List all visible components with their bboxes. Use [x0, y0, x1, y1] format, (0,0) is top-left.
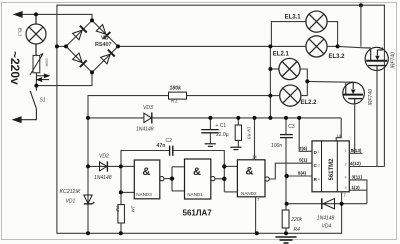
svg-text:VD: VD [101, 36, 109, 42]
svg-text:R1: R1 [171, 99, 178, 105]
svg-text:3: 3 [318, 163, 320, 167]
svg-text:NAND1: NAND1 [187, 192, 203, 197]
svg-text:14: 14 [336, 134, 341, 139]
svg-text:47n: 47n [157, 143, 166, 149]
wire vcc rail [88, 118, 341, 141]
svg-text:1N4148: 1N4148 [136, 126, 154, 132]
lamp EL2.2 [280, 85, 301, 106]
wire bridge bottom to switch node [36, 72, 92, 85]
wire top minus rail [57, 5, 385, 46]
wire EL feed vertical [270, 22, 306, 118]
arrow mains terminal bottom [14, 117, 22, 122]
wire bottom rail [88, 232, 342, 234]
svg-text:~220v: ~220v [8, 51, 22, 85]
wire gateA out to gateB in [164, 167, 185, 191]
svg-text:561ЛА7: 561ЛА7 [183, 209, 213, 218]
wire VD4 line [287, 203, 367, 205]
arrow mains terminal top [15, 12, 23, 17]
wire pin 4(12) [349, 166, 384, 168]
svg-text:561ТМ2: 561ТМ2 [329, 158, 335, 181]
svg-text:7(6): 7(6) [299, 146, 308, 151]
ground main [276, 237, 297, 243]
gateC pin14 power stub [254, 118, 256, 160]
diode VD4 1N4148 [322, 198, 335, 209]
wire VT1 drain to top rail [383, 48, 385, 167]
wire VT1 source down [376, 70, 378, 166]
gate NAND3 U1.1 [134, 160, 160, 199]
lamp EL2.1 [279, 58, 300, 79]
svg-text:6(4): 6(4) [298, 170, 307, 175]
gate NAND1 U1.2 [185, 159, 211, 199]
wire gate A input node [121, 166, 134, 204]
resistor R1 180k [169, 92, 187, 99]
svg-text:1N4148: 1N4148 [317, 215, 335, 221]
wire mains top [15, 13, 92, 15]
wire C pin from gateC out [269, 163, 312, 179]
switch S1 [20, 86, 36, 120]
wire bridge left stub [57, 45, 66, 47]
IC pin digits [318, 149, 347, 190]
IC DD2 561TM2 [312, 141, 349, 192]
svg-text:VD1: VD1 [66, 199, 76, 205]
svg-text:EL2.2: EL2.2 [301, 100, 318, 106]
lamp EL3.2 [306, 36, 327, 57]
lamp EL3.1 [306, 11, 327, 32]
wire pin 3(11) [349, 180, 367, 204]
wire dropper rail [88, 96, 270, 234]
bridge diode lower-right [101, 50, 115, 64]
svg-text:14: 14 [252, 154, 257, 159]
diode VD2 1N4148 [88, 165, 121, 167]
svg-text:KC212Ж: KC212Ж [60, 189, 82, 195]
svg-text:+ C1: + C1 [216, 123, 227, 129]
gateC pin7 gnd stub [255, 197, 257, 234]
diamond wires [66, 20, 118, 72]
bridge diode upper-left [73, 26, 87, 40]
svg-text:1(2): 1(2) [352, 185, 361, 190]
svg-text:100R: 100R [45, 58, 49, 67]
svg-text:EL1: EL1 [16, 28, 22, 37]
svg-text:RS407: RS407 [95, 42, 111, 48]
svg-text:5(1): 5(1) [299, 158, 308, 163]
svg-text:R3: R3 [246, 134, 251, 140]
diode VD3 1N4148 [144, 112, 152, 123]
svg-text:NAND3: NAND3 [136, 192, 152, 197]
resistor R2 1M [118, 205, 125, 223]
ground under C1 [205, 144, 216, 147]
wire pin 1(2) [349, 189, 367, 191]
bridge diode lower-left [73, 53, 87, 67]
svg-text:8(13): 8(13) [351, 148, 362, 153]
svg-text:VD2: VD2 [99, 153, 109, 159]
wire gateB out to gateC in [215, 166, 237, 192]
svg-text:180k: 180k [170, 86, 183, 92]
svg-text:3(11): 3(11) [352, 175, 363, 180]
wire EL2 right node [300, 69, 348, 96]
transistor VT1 IRF740 upper [365, 47, 388, 70]
svg-text:1M: 1M [130, 206, 135, 213]
svg-text:1N4148: 1N4148 [94, 175, 112, 181]
lamp EL1 [26, 14, 46, 55]
svg-text:R2: R2 [115, 206, 120, 212]
svg-text:EL3.1: EL3.1 [285, 15, 302, 21]
svg-text:1M: 1M [246, 127, 251, 133]
svg-text:22.0µ: 22.0µ [216, 132, 229, 138]
svg-text:4: 4 [318, 177, 320, 181]
svg-text:IRF740: IRF740 [391, 52, 397, 69]
svg-text:4: 4 [345, 176, 347, 180]
svg-text:1: 1 [318, 150, 320, 154]
svg-text:&: & [246, 166, 254, 178]
wire D pin from rail [299, 118, 312, 151]
connector X1 arrows [36, 73, 49, 86]
wire IC gnd stub [341, 192, 343, 234]
svg-text:220k: 220k [290, 217, 302, 223]
svg-text:EL3.2: EL3.2 [329, 54, 346, 60]
wire right minus drop [383, 5, 385, 48]
svg-text:1: 1 [345, 149, 347, 153]
svg-text:S1: S1 [40, 98, 46, 104]
svg-text:&: & [142, 166, 150, 178]
svg-text:VD3: VD3 [143, 105, 153, 111]
svg-text:VD4: VD4 [322, 223, 332, 229]
varistor R5 (box with arrow) [30, 55, 43, 76]
ground under R3 [230, 147, 241, 149]
svg-text:&: & [193, 166, 201, 178]
svg-text:C3: C3 [288, 124, 295, 130]
svg-text:R4: R4 [294, 227, 301, 233]
node dots group C [268, 44, 343, 235]
bridge diode upper-right [96, 25, 110, 39]
svg-text:4(12): 4(12) [350, 161, 361, 166]
wire Q pin 8(13) [349, 152, 362, 154]
diode bridge VD RS407 [66, 20, 118, 72]
resistor R3 1M [237, 118, 239, 125]
svg-text:2: 2 [345, 162, 347, 166]
capacitor C3 100n [285, 118, 287, 233]
transistor VT2 IRF740 lower [343, 82, 365, 104]
svg-text:NAND2: NAND2 [241, 191, 257, 196]
svg-text:EL2.1: EL2.1 [273, 52, 290, 58]
svg-text:3: 3 [345, 186, 347, 190]
gate NAND2 U1.3 [237, 160, 265, 197]
node dots group B [86, 116, 259, 235]
svg-text:C2: C2 [166, 138, 173, 144]
wire bridge plus rail [118, 45, 306, 47]
wire EL3 right node [327, 5, 366, 48]
capacitor C2 47n [170, 146, 173, 156]
wire R pin to gnd line [287, 175, 312, 177]
zener VD1 KC212Zh [84, 195, 94, 204]
node dots group A [34, 3, 363, 87]
svg-text:IRF740: IRF740 [368, 89, 374, 106]
wire feedback C2 [121, 151, 224, 167]
wire VT2 source down [354, 104, 356, 154]
wire left rail down [57, 46, 88, 233]
capacitor C1 22.0u electrolytic [209, 118, 211, 144]
svg-text:100n: 100n [271, 143, 282, 149]
resistor R4 220k [282, 210, 289, 228]
